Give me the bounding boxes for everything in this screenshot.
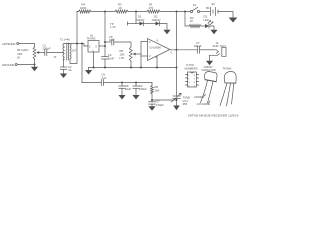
svg-text:470: 470	[149, 6, 154, 10]
svg-text:AUD. OUT: AUD. OUT	[213, 44, 227, 48]
svg-text:1.4V: 1.4V	[110, 25, 116, 29]
svg-text:1uF: 1uF	[109, 38, 114, 42]
svg-text:100uF: 100uF	[194, 44, 202, 48]
svg-text:ANTENNA: ANTENNA	[2, 42, 15, 46]
svg-text:TA7642: TA7642	[87, 37, 96, 41]
svg-text:1K: 1K	[17, 55, 21, 59]
svg-text:B1: B1	[206, 6, 210, 10]
svg-text:1uF: 1uF	[102, 76, 107, 80]
svg-text:1N4007: 1N4007	[136, 18, 146, 22]
svg-text:100pF: 100pF	[43, 47, 51, 51]
svg-text:1N4007: 1N4007	[152, 18, 162, 22]
svg-text:TA7642: TA7642	[223, 66, 232, 70]
svg-text:1K: 1K	[119, 6, 123, 10]
svg-text:4T: 4T	[54, 55, 57, 59]
svg-text:10T: 10T	[72, 48, 77, 52]
svg-text:365: 365	[183, 102, 188, 106]
svg-text:NUMBERS: NUMBERS	[185, 66, 198, 70]
svg-text:S1: S1	[193, 3, 197, 7]
svg-text:9V: 9V	[212, 2, 216, 6]
svg-text:10K: 10K	[155, 89, 160, 93]
svg-text:1K: 1K	[190, 19, 194, 23]
svg-text:100uF: 100uF	[139, 87, 147, 91]
svg-text:10uF: 10uF	[125, 87, 132, 91]
svg-text:100K: 100K	[80, 6, 87, 10]
svg-text:U1: U1	[90, 33, 94, 37]
svg-text:T1 1=40: T1 1=40	[60, 37, 71, 41]
svg-text:LIN: LIN	[120, 56, 124, 60]
svg-text:U2-LM386: U2-LM386	[150, 47, 162, 50]
svg-text:.01: .01	[68, 68, 72, 72]
svg-text:LED: LED	[204, 18, 209, 22]
svg-text:CATHODE: CATHODE	[197, 102, 211, 106]
svg-text:GROUND: GROUND	[2, 63, 14, 67]
svg-text:ANODE: ANODE	[194, 95, 204, 99]
svg-text:10nF: 10nF	[108, 57, 115, 61]
svg-text:130pF: 130pF	[156, 103, 164, 107]
svg-text:K8TND AM BCB RECEIVER 12/9/19: K8TND AM BCB RECEIVER 12/9/19	[188, 114, 239, 118]
